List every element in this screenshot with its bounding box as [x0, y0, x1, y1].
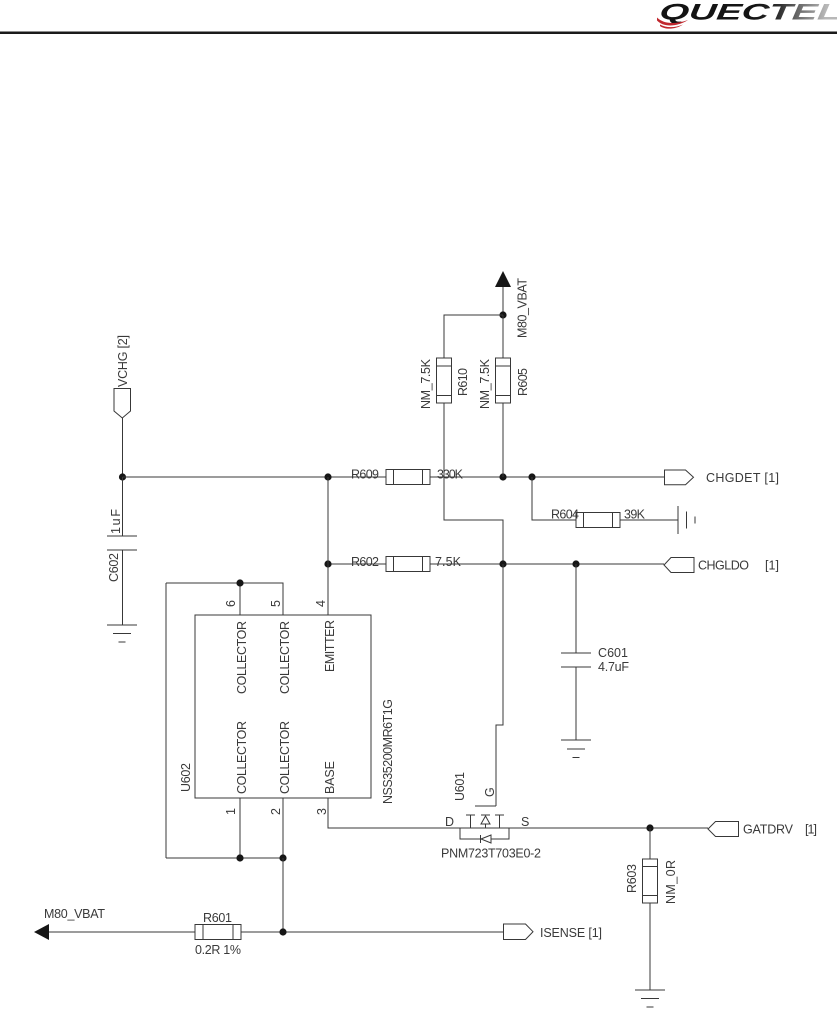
- svg-text:M80_VBAT: M80_VBAT: [44, 907, 105, 921]
- junction pin 2 bottom node: [279, 928, 286, 935]
- svg-text:NM_0R: NM_0R: [664, 860, 678, 904]
- svg-text:R601: R601: [203, 911, 232, 925]
- svg-text:330K: 330K: [437, 468, 464, 482]
- svg-text:G: G: [483, 787, 497, 797]
- svg-text:R605: R605: [516, 368, 530, 396]
- svg-text:NM_7.5K: NM_7.5K: [419, 358, 433, 409]
- svg-text:3: 3: [315, 808, 329, 815]
- svg-text:U602: U602: [179, 763, 193, 792]
- wire arrow to R601: [49, 931, 195, 933]
- IC U602 body: [195, 615, 371, 798]
- junction pin 2 bottom: [279, 854, 286, 861]
- junction pin4 branch: [324, 473, 331, 480]
- svg-text:BASE: BASE: [323, 761, 337, 794]
- port GATDRV [1]: [708, 822, 817, 837]
- junction R603 branch: [646, 824, 653, 831]
- wire node to C602: [122, 477, 124, 536]
- wire C601 top: [575, 564, 577, 653]
- wire pin4 vertical: [327, 477, 329, 615]
- svg-text:6: 6: [224, 600, 238, 607]
- svg-text:CHGLDO: CHGLDO: [698, 559, 749, 573]
- wire R603 to ground: [649, 903, 651, 990]
- svg-text:COLLECTOR: COLLECTOR: [278, 621, 292, 694]
- wire pin 1 stem: [239, 798, 241, 858]
- wire top bar to R610: [444, 315, 503, 358]
- wire C602 to ground: [122, 550, 124, 625]
- capacitor C601: [561, 653, 591, 667]
- svg-text:R609: R609: [351, 468, 379, 482]
- wire U602 left loop: [165, 583, 167, 858]
- wire CHGLDO row left segment: [328, 563, 386, 565]
- svg-text:5: 5: [269, 600, 283, 607]
- svg-text:39K: 39K: [624, 508, 646, 522]
- wire gate branch: [496, 564, 503, 806]
- resistor R602: [386, 557, 430, 572]
- svg-text:R603: R603: [625, 864, 639, 893]
- wire pin 2 stem: [282, 798, 284, 858]
- svg-text:0.2R 1%: 0.2R 1%: [195, 943, 241, 957]
- junction gate branch: [499, 560, 506, 567]
- port CHGDET [1]: [665, 470, 780, 485]
- wire R601 to ISENSE: [241, 931, 503, 933]
- junction pin 6 top: [236, 579, 243, 586]
- wire pin 3 to transistor drain: [328, 798, 708, 828]
- svg-text:[1]: [1]: [765, 559, 779, 573]
- svg-text:CHGDET [1]: CHGDET [1]: [706, 471, 779, 485]
- svg-text:1: 1: [224, 808, 238, 815]
- junction pin 1 bottom: [236, 854, 243, 861]
- power M80_VBAT: [495, 271, 530, 338]
- transistor U601: [460, 806, 509, 843]
- header rule: [0, 32, 837, 35]
- wire R603 top: [649, 828, 651, 859]
- svg-text:1uF: 1uF: [109, 509, 123, 534]
- ground C602: [107, 625, 137, 642]
- wire R605 top: [502, 315, 504, 358]
- svg-text:R602: R602: [351, 555, 379, 569]
- wire R610 bottom to CHGLDO row: [444, 403, 503, 564]
- wire U602 bottom bar: [166, 857, 283, 859]
- wire pin 2 down to ISENSE row: [282, 858, 284, 932]
- junction C601 branch: [572, 560, 579, 567]
- svg-text:R604: R604: [551, 508, 579, 522]
- svg-text:COLLECTOR: COLLECTOR: [235, 721, 249, 794]
- wire VCHG stem: [122, 418, 124, 477]
- svg-text:C602: C602: [107, 553, 121, 582]
- svg-text:COLLECTOR: COLLECTOR: [235, 621, 249, 694]
- junction R605 branch: [499, 473, 506, 480]
- svg-text:4.7uF: 4.7uF: [598, 660, 629, 674]
- svg-text:S: S: [521, 815, 529, 829]
- svg-text:D: D: [445, 815, 454, 829]
- capacitor C602: [107, 536, 137, 550]
- svg-text:NSS35200MR6T1G: NSS35200MR6T1G: [381, 699, 395, 804]
- wire power stem: [502, 287, 504, 315]
- resistor R601: [195, 925, 241, 940]
- ground C601: [561, 740, 591, 758]
- resistor R605: [496, 358, 511, 403]
- resistor R610: [437, 358, 452, 403]
- svg-text:PNM723T703E0-2: PNM723T703E0-2: [441, 847, 541, 861]
- svg-text:EMITTER: EMITTER: [323, 620, 337, 672]
- svg-text:VCHG [2]: VCHG [2]: [116, 335, 130, 387]
- junction pin4 node: [324, 560, 331, 567]
- svg-text:[1]: [1]: [805, 823, 817, 837]
- wire CHGLDO row right segment: [430, 563, 664, 565]
- Quectel logo: [657, 0, 837, 29]
- wire U602 top bar: [166, 583, 283, 615]
- svg-text:QUECTEL: QUECTEL: [658, 0, 837, 24]
- port CHGLDO [1]: [664, 558, 779, 573]
- wire R604 to ground: [620, 519, 678, 521]
- svg-text:7.5K: 7.5K: [435, 555, 462, 569]
- wire C601 to ground: [575, 667, 577, 740]
- wire CHGDET row right segment: [430, 476, 664, 478]
- svg-text:ISENSE [1]: ISENSE [1]: [540, 926, 602, 940]
- ground R603: [635, 990, 665, 1007]
- port ISENSE [1]: [504, 924, 603, 940]
- wire pin 6 stem: [239, 583, 241, 615]
- svg-text:GATDRV: GATDRV: [743, 823, 794, 837]
- wire R605 bottom to CHGDET row: [502, 403, 504, 477]
- svg-text:M80_VBAT: M80_VBAT: [516, 278, 530, 338]
- svg-text:NM_7.5K: NM_7.5K: [478, 358, 492, 409]
- resistor R609: [386, 470, 430, 485]
- svg-text:COLLECTOR: COLLECTOR: [278, 721, 292, 794]
- svg-text:C601: C601: [598, 646, 628, 660]
- svg-text:4: 4: [314, 600, 328, 607]
- junction power node: [499, 311, 506, 318]
- wire R604 branch: [532, 477, 576, 520]
- svg-text:R610: R610: [456, 368, 470, 396]
- port VCHG [2]: [114, 335, 131, 418]
- resistor R603: [643, 859, 658, 903]
- power M80_VBAT (bottom left arrow): [34, 907, 105, 940]
- svg-text:U601: U601: [453, 772, 467, 801]
- wire CHGDET row left segment: [123, 476, 387, 478]
- junction VCHG node: [119, 473, 126, 480]
- svg-text:2: 2: [269, 808, 283, 815]
- junction R604 branch: [528, 473, 535, 480]
- ground R604 (right facing): [678, 506, 695, 534]
- resistor R604: [576, 513, 620, 528]
